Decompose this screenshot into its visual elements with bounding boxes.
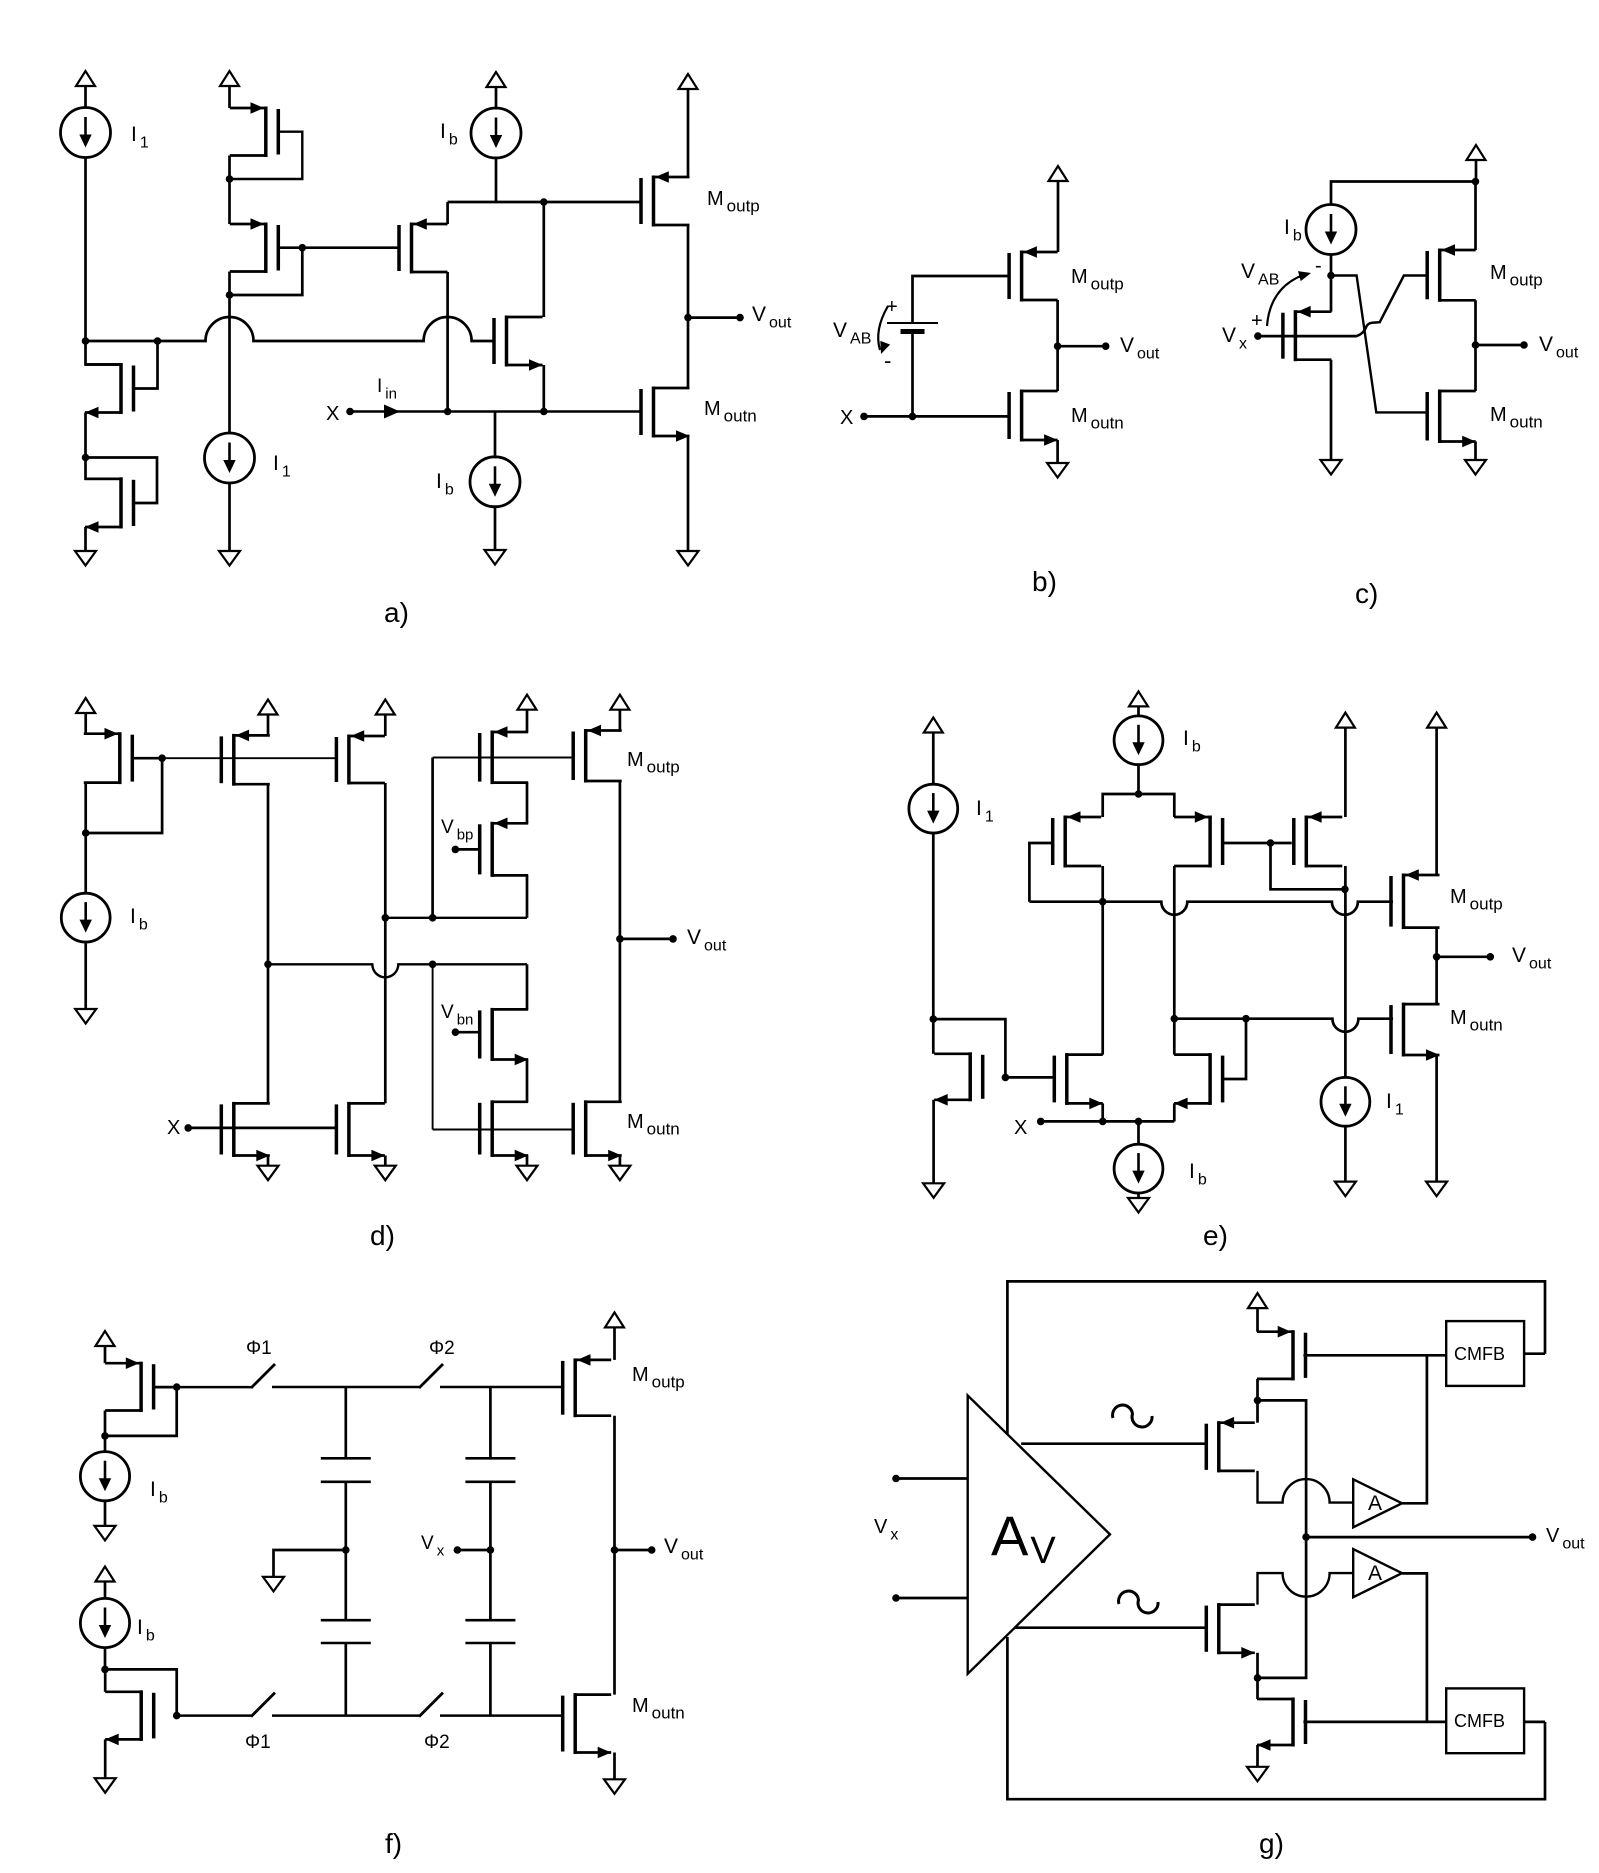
junction node (157,341) (154, 337, 162, 345)
node Vx input - terminal (892, 1594, 900, 1602)
wire Me5 gate loop (1223, 1019, 1246, 1079)
transistor M5 (floating class-AB PMOS) (399, 218, 448, 273)
wire VDD to Mf1 (104, 1346, 107, 1363)
transistor Mf1 (diode PMOS top) (105, 1357, 154, 1412)
wire VDD to Me6 (1344, 728, 1347, 817)
wire cap C2 bottom to Vx node (489, 1482, 492, 1550)
wire M2 source down (228, 272, 231, 296)
wire VDD to Md1 (84, 713, 87, 734)
wire Moutn drain up (circuit e) (1435, 957, 1438, 1004)
junction node (385,917) (382, 914, 390, 922)
wire M1 source to A amp input (hop over Vout line) (1258, 1471, 1354, 1503)
wire Vout stub (circuit f) (615, 1549, 652, 1552)
current source I1 right (circuit e) (1321, 1077, 1370, 1126)
current source Ib (top, circuit a) (471, 108, 521, 158)
wire Me5 source down to X (1173, 1103, 1176, 1121)
transistor Md8 (cascode Vbn NMOS) (480, 1008, 529, 1065)
wire Moutn drain up (circuit c) (1474, 345, 1477, 391)
junction node (432,964) (429, 961, 437, 969)
block CMFB (bottom) (1446, 1688, 1524, 1753)
wire Md2 drain long vertical (267, 784, 270, 1103)
wire gate bus to transistor M5 (302, 246, 399, 249)
junction Mf1 gate node (173, 1383, 181, 1391)
VDD supply symbol (circuit b) (1049, 166, 1068, 181)
wire Md5 source to ground (267, 1156, 270, 1166)
transistor Md3 (mirror PMOS) (336, 730, 385, 784)
wire horizontal bus with crossover hops (circuit a) (86, 317, 494, 341)
wire top plate line phi1/phi2 (circuit f) (177, 1386, 251, 1389)
junction Md1 gate node (158, 754, 166, 762)
wire Ib to ground (circuit d) (84, 942, 87, 1009)
svg-text:A: A (1368, 1492, 1382, 1515)
wire node to Ib 1 (circuit f) (104, 1436, 107, 1452)
wire Vout stub (circuit d) (620, 938, 673, 941)
node X terminal dot (346, 408, 354, 416)
ground symbol I1 right (circuit e) (1335, 1182, 1356, 1197)
ground symbol Md9 (circuit d) (517, 1166, 538, 1181)
ground symbol mid (circuit f) (263, 1577, 284, 1592)
wire Moutp drain to Vout (687, 225, 690, 318)
transistor Moutn (circuit c) (1427, 390, 1476, 448)
VDD supply symbol (left column, circuit a) (76, 71, 95, 86)
junction node (105,1669) (101, 1666, 109, 1674)
wire Vout stub (circuit c) (1476, 344, 1525, 347)
wire Moutp drain up to rail (1474, 182, 1477, 251)
transistor Me4 (mesh PMOS right) (1174, 811, 1223, 867)
wire Mf1 diode loop (105, 1387, 177, 1436)
current source I1 (circuit e left) (909, 784, 958, 833)
wire node A to M1 drain (1330, 276, 1333, 312)
wire M1 source to node (228, 156, 231, 180)
transistor M3 (left mirror top) (85, 363, 134, 418)
svg-text:Φ1: Φ1 (246, 1338, 272, 1359)
wire Mf1 gate lead (154, 1386, 177, 1389)
capacitor C4 (circuit f) (465, 1620, 515, 1643)
wire Moutp drain to Vout (circuit b) (1056, 300, 1059, 346)
transistor M4 (left mirror bottom, diode-connected) (85, 477, 134, 533)
wire M4 source to ground (1256, 1745, 1259, 1767)
wire CMFB top to rail stub (1524, 1352, 1545, 1355)
current source Ib bottom (circuit e) (1114, 1144, 1163, 1193)
wire bus corner down to Md8 (526, 964, 529, 1009)
transistor M1 (diode-connected, top of mirror) (230, 102, 278, 157)
transistor M1 (top driver PMOS, circuit g) (1206, 1417, 1255, 1473)
wire Ib to mesh top rail (1137, 765, 1140, 794)
current source Ib (circuit c) (1306, 205, 1356, 255)
current source I1 (upper left) (61, 108, 111, 158)
wire Vx stub (457, 1549, 490, 1552)
svg-text:X: X (840, 407, 853, 429)
VDD supply right-1 (circuit e) (1336, 713, 1355, 728)
capacitor C2 (circuit f) (465, 1458, 515, 1482)
node Vbp terminal (452, 846, 460, 854)
wire VDD to transistor M1 drain (228, 86, 231, 108)
wire gate bus y=202 (448, 201, 641, 204)
transistor Me6 (diode PMOS right) (1294, 811, 1343, 867)
switch phi1 bottom (251, 1693, 275, 1717)
transistor Moutp (circuit c) (1427, 244, 1476, 302)
wire battery bottom to node X (circuit b) (911, 332, 914, 417)
wire Moutp drain to Vout (circuit f) (613, 1416, 616, 1550)
VDD supply 3 (circuit f) (605, 1312, 624, 1327)
wire CMFB bottom to rail stub (1524, 1721, 1545, 1724)
VDD supply (circuit g) (1248, 1293, 1267, 1308)
svg-text:Φ1: Φ1 (245, 1732, 271, 1753)
wire M6 source down to node X (542, 365, 545, 412)
transistor Moutp (circuit b) (1009, 246, 1058, 301)
node Vout junction (circuit c) (1472, 341, 1480, 349)
junction Me1 gate node (1002, 1074, 1010, 1082)
wire input line X with Iin arrow (350, 410, 640, 412)
junction mid node (345,1550) (342, 1546, 350, 1554)
svg-text:g): g) (1259, 1828, 1284, 1859)
wire mesh bus y=902 with hops (1029, 902, 1393, 915)
VDD supply 1 (circuit d) (76, 698, 95, 713)
wire Me3 drain down (1101, 866, 1104, 902)
junction node (1257,1400) (1254, 1397, 1262, 1405)
VDD supply 2 (circuit f) (96, 1567, 115, 1582)
transistor Moutp (output PMOS, circuit a) (641, 171, 690, 226)
junction Mf2 gate node (173, 1712, 181, 1720)
battery VAB (floating voltage source) (887, 323, 938, 332)
wire Ib to node A (1330, 254, 1333, 276)
node Vout terminal (circuit g) (1529, 1533, 1537, 1541)
wire gate branch up (Md4/Moutp gates) (431, 758, 434, 918)
svg-text:a): a) (384, 597, 409, 628)
svg-text:X: X (1014, 1117, 1027, 1139)
ground symbol Moutn (circuit d) (609, 1166, 630, 1181)
wire amp output top to M1 gate (1021, 1442, 1206, 1445)
wire Ib to gate bus of Moutp (495, 157, 498, 203)
transistor Md9 (class-AB NMOS) (480, 1100, 529, 1161)
wire M6 drain up (542, 202, 545, 317)
transistor Me2 (mesh NMOS left) (1054, 1053, 1103, 1109)
ground symbol Me1 (circuit e) (923, 1183, 944, 1198)
wire node X down to current source Ib (bottom) (494, 412, 497, 459)
wire VDD to Md2 (267, 715, 270, 736)
wire Mf1 source down (104, 1411, 107, 1436)
node Vout terminal (circuit d) (669, 935, 677, 943)
svg-text:c): c) (1355, 578, 1378, 609)
VDD supply 1 (circuit f) (96, 1331, 115, 1346)
svg-text:X: X (326, 403, 339, 425)
svg-text:+: + (1251, 310, 1263, 332)
wire bus y=964 with hop (circuit d) (268, 964, 527, 977)
junction mesh top node (1135, 790, 1143, 798)
wire X input line (circuit b) (864, 415, 1010, 418)
wire Moutn source to ground (circuit b) (1056, 440, 1059, 463)
wire M4 drain up (86, 458, 122, 479)
wire node to current source I1 (middle) (228, 295, 231, 434)
wire cap C1 top connection (344, 1387, 347, 1458)
wire Vout stub (circuit e) (1437, 955, 1491, 958)
wire Vbn input (455, 1031, 480, 1034)
transistor Moutp (circuit d) (573, 725, 622, 783)
svg-text:d): d) (370, 1220, 395, 1251)
transistor Md4 (class-AB PMOS) (480, 726, 529, 784)
junction node (268,964) (264, 961, 272, 969)
wire mid node to cap C3 (344, 1550, 347, 1620)
wire I1 to ground (228, 482, 231, 551)
wire M4 gate loop (86, 458, 158, 504)
node Vx terminal (circuit f) (454, 1546, 462, 1554)
transistor Md5 (input NMOS) (221, 1102, 269, 1161)
wire Mf2 diode loop (105, 1669, 177, 1715)
wire mesh top rail (1103, 794, 1175, 817)
transistor Me3 (mesh PMOS left) (1053, 811, 1102, 867)
node Vbn terminal (452, 1028, 460, 1036)
junction node (85,833) (82, 829, 90, 837)
transistor M1 (level-shift PMOS, circuit c) (1283, 306, 1332, 361)
current source I1 (middle, circuit a) (205, 433, 255, 483)
junction node (85,341) (82, 337, 90, 345)
junction node battery/X (circuit b) (909, 413, 917, 421)
wire cross diagonal Vx to Moutp gate (with hop) (1357, 276, 1428, 337)
wire A bottom output to CMFB line (1402, 1573, 1427, 1722)
wire Ib 1 to ground (104, 1501, 107, 1526)
VDD supply 2 (circuit d) (259, 700, 278, 715)
wire Md8 source down to Md9 (526, 1060, 529, 1102)
wire I1 down to Me1 (932, 833, 935, 1054)
switch phi1 top (251, 1364, 275, 1388)
wire amp output bottom to M2 gate (1015, 1626, 1206, 1629)
svg-text:-: - (1315, 255, 1322, 277)
transistor M2 (bottom driver NMOS, circuit g) (1206, 1603, 1255, 1659)
wire gate bus Me4-Me6 (1271, 842, 1292, 845)
node Vout terminal (circuit e) (1487, 953, 1495, 961)
transistor Moutn (circuit e) (1391, 1003, 1440, 1061)
ground symbol Ib (circuit d) (75, 1009, 96, 1024)
wire input - stub (896, 1597, 969, 1600)
wire VDD to Moutp (circuit d) (619, 710, 622, 731)
wire gate bus Me1-Me2 (1005, 1076, 1053, 1079)
VDD supply symbol above Moutp (circuit a) (679, 74, 698, 89)
ground symbol Mf2 (circuit f) (95, 1778, 116, 1793)
current source Ib (bottom, circuit a) (470, 457, 520, 507)
wire cap C4 bottom connection (489, 1643, 492, 1716)
wire Md6 source to ground (384, 1156, 387, 1166)
block CMFB (top) (1446, 1321, 1524, 1386)
wire VDD to current source Ib (495, 87, 498, 110)
arrow arc VAB (circuit c) (1267, 275, 1303, 326)
transistor Md1 (diode PMOS mirror) (84, 728, 133, 784)
wire Md1 diode loop (86, 758, 162, 833)
wire I1 right to ground (1344, 1126, 1347, 1181)
wire Me1 source to ground (932, 1100, 935, 1184)
wire VDD to Moutp (circuit e) (1435, 728, 1438, 875)
wire cap C1 bottom to mid node (344, 1482, 347, 1550)
svg-text:A: A (1368, 1562, 1382, 1585)
wire cap C3 bottom connection (344, 1643, 347, 1716)
VDD supply symbol (second column, circuit a) (220, 71, 239, 86)
junction node (490,1550) (487, 1546, 495, 1554)
wire Vx input line (1258, 335, 1357, 338)
wire M5 source down to node X (446, 272, 449, 412)
node Vout terminal (circuit f) (648, 1546, 656, 1554)
wire mid node ground stub (274, 1550, 346, 1577)
wire M1 gate loop (230, 132, 303, 179)
ground symbol left (circuit c) (1321, 460, 1342, 475)
wire Me4 drain down (1173, 866, 1176, 1019)
wire Vout stub (688, 316, 740, 319)
wire Mf2 drain up (104, 1669, 107, 1691)
wire Moutp drain to Vout (circuit d) (619, 781, 622, 939)
signal squiggle top (sine symbol) (1113, 1405, 1152, 1427)
ground symbol Md6 (circuit d) (375, 1166, 396, 1181)
wire Moutn source to ground (circuit d) (619, 1156, 622, 1166)
wire Vout down to Moutn (circuit d) (619, 939, 622, 1102)
junction node (1246,1019) (1242, 1015, 1250, 1023)
junction node (933,1019) (930, 1015, 938, 1023)
node Vout junction (circuit a) (684, 314, 692, 322)
wire Vout down to Moutn (circuit f) (613, 1550, 616, 1695)
wire M2 drain to A amp input (hop under Vout line) (1258, 1573, 1354, 1605)
wire Me4 gate lead (1223, 842, 1270, 845)
ground symbol (circuit g) (1247, 1767, 1268, 1782)
signal squiggle bottom (sine symbol) (1119, 1591, 1158, 1613)
wire I1 to node bus (left column) (84, 157, 87, 342)
wire input + stub (896, 1477, 969, 1480)
wire Me4/Me6 gate loop down (1271, 843, 1345, 889)
wire Md1 gate lead (132, 757, 162, 760)
node Vx terminal (1254, 332, 1262, 340)
switch phi2 bottom (419, 1693, 443, 1717)
ground symbol (middle column, circuit a) (219, 551, 240, 566)
junction node (1102,902) (1099, 898, 1107, 906)
junction node (1257,1678) (1254, 1674, 1262, 1682)
amplifier A (bottom) (1353, 1549, 1402, 1597)
wire gate branch down (Md9/Moutn gates) (432, 964, 434, 1129)
wire M2 source down (1256, 1653, 1259, 1678)
wire X down to Ib bottom (1137, 1121, 1140, 1144)
wire VDD to Ib top (circuit e) (1137, 706, 1140, 716)
wire Moutn source to ground (circuit c) (1474, 442, 1477, 461)
wire Vbp input (455, 848, 480, 851)
transistor Moutn (circuit f) (563, 1693, 612, 1758)
svg-text:Φ2: Φ2 (424, 1732, 450, 1753)
wire Vout stub (circuit b) (1058, 345, 1106, 348)
wire Moutp drain to Vout (circuit e) (1435, 928, 1438, 957)
junction node (1102,1121) (1099, 1118, 1107, 1126)
wire Md7 source to bus (526, 875, 529, 917)
wire Mf2 source to ground (104, 1739, 107, 1778)
wire Moutp source to Vout (1474, 300, 1477, 345)
transistor Mf2 (diode NMOS bottom) (105, 1690, 154, 1745)
ground symbol (left column, circuit a) (75, 551, 96, 566)
svg-text:CMFB: CMFB (1454, 1711, 1505, 1731)
wire gate bus Md1-Md2-Md3 (thin) (162, 757, 336, 759)
wire Me4 drain to Me5 (1173, 1019, 1176, 1055)
wire M3 drain up to bus (86, 341, 122, 365)
svg-text:Φ2: Φ2 (429, 1338, 455, 1359)
wire Vout line (circuit g) (1306, 1536, 1532, 1539)
node Vout terminal (circuit b) (1102, 342, 1110, 350)
wire top rail to Ib (circuit c) (1331, 182, 1476, 206)
ground symbol Ib 1 (circuit f) (95, 1526, 116, 1541)
wire VDD to Moutp (circuit f) (613, 1327, 616, 1360)
wire M2 gate loop down (230, 248, 303, 295)
wire bottom feedback rail (circuit g) (1007, 1637, 1545, 1799)
VDD supply right-2 (circuit e) (1427, 713, 1446, 728)
wire node to M2 drain (228, 179, 231, 224)
wire M4 source to ground (84, 527, 87, 551)
wire Me2 source down to X (1101, 1103, 1104, 1121)
wire Moutn source to ground (687, 436, 690, 551)
wire M1 drain up (1256, 1400, 1259, 1422)
wire Moutn source to ground (circuit e) (1435, 1055, 1438, 1182)
amplifier A (top) (1353, 1479, 1402, 1527)
wire M3 gate to CMFB (1303, 1354, 1446, 1357)
wire Moutn drain up (circuit b) (1056, 346, 1059, 391)
VDD supply middle (circuit e) (1129, 691, 1148, 706)
svg-text:-: - (884, 348, 891, 373)
node X terminal (circuit e) (1037, 1118, 1045, 1126)
wire Me2 drain up (1101, 902, 1104, 1055)
wire cross diagonal node A to Moutn gate (1331, 276, 1428, 413)
current source Ib (circuit d) (61, 893, 110, 942)
node Vout junction (circuit g) (1302, 1533, 1310, 1541)
transistor Me1 (diode NMOS bias) (934, 1052, 983, 1105)
ground symbol right (circuit c) (1465, 460, 1486, 475)
transistor Moutn (output NMOS, circuit a) (641, 387, 690, 442)
wire M4 gate to CMFB (1303, 1721, 1446, 1724)
VDD supply symbol above Ib (circuit a) (487, 72, 506, 87)
VDD supply 5 (circuit d) (610, 695, 629, 710)
junction node (447,411) (444, 408, 452, 416)
wire bus y=1019 with hop (circuit e) (1174, 1019, 1393, 1032)
wire central vertical to Vout (circuit g) (1258, 1400, 1307, 1678)
current source Ib 1 (circuit f) (80, 1452, 129, 1501)
node A junction (circuit c) (1327, 272, 1335, 280)
junction node (1138,1121) (1135, 1118, 1143, 1126)
transistor M6 (floating class-AB NMOS) (494, 316, 543, 371)
node Vout terminal (736, 314, 744, 322)
transistor Md2 (mirror PMOS) (221, 730, 269, 786)
current source Ib top (circuit e) (1114, 716, 1163, 765)
wire M4 drain up (1256, 1678, 1259, 1699)
transistor M2 (diode-connected, second of stack) (230, 218, 278, 273)
node Vout junction (circuit f) (611, 1546, 619, 1554)
wire Moutn source to ground (circuit f) (613, 1753, 616, 1780)
junction Me4 gate node (1267, 839, 1275, 847)
current source Ib 2 (circuit f) (80, 1598, 129, 1647)
node X terminal (circuit b) (860, 413, 868, 421)
transistor Moutp (circuit e) (1391, 869, 1440, 929)
wire VDD to Md4 (526, 710, 529, 732)
transistor M3 (top current-source PMOS, circuit g) (1257, 1326, 1306, 1381)
wire VDD to Moutp (circuit b) (1057, 181, 1060, 252)
wire Md4 source down to Md7 (526, 783, 529, 824)
wire M2 gate lead (278, 246, 302, 249)
capacitor C1 (circuit f) (321, 1458, 371, 1482)
wire M3 source down (1256, 1379, 1259, 1401)
wire Ib 2 to Mf2 node (104, 1648, 107, 1670)
wire VDD to Md3 (384, 715, 387, 737)
transistor Moutn (circuit d) (573, 1100, 622, 1161)
wire Vx node to cap C4 (489, 1550, 492, 1620)
ground symbol Moutn (circuit e) (1426, 1182, 1447, 1197)
transistor Moutn (circuit b) (1009, 390, 1058, 446)
wire VDD to current source I1 (upper left) (84, 86, 87, 109)
VDD supply left (circuit e) (924, 718, 943, 733)
junction node (302,248) (299, 244, 307, 252)
ground symbol Md5 (circuit d) (258, 1166, 279, 1181)
wire M3 source down (84, 413, 87, 458)
op-amp AV (main amplifier triangle) (968, 1396, 1110, 1674)
junction node (85,457) (82, 454, 90, 462)
junction node (105,1436) (101, 1432, 109, 1440)
node Vout junction (circuit e) (1433, 953, 1441, 961)
